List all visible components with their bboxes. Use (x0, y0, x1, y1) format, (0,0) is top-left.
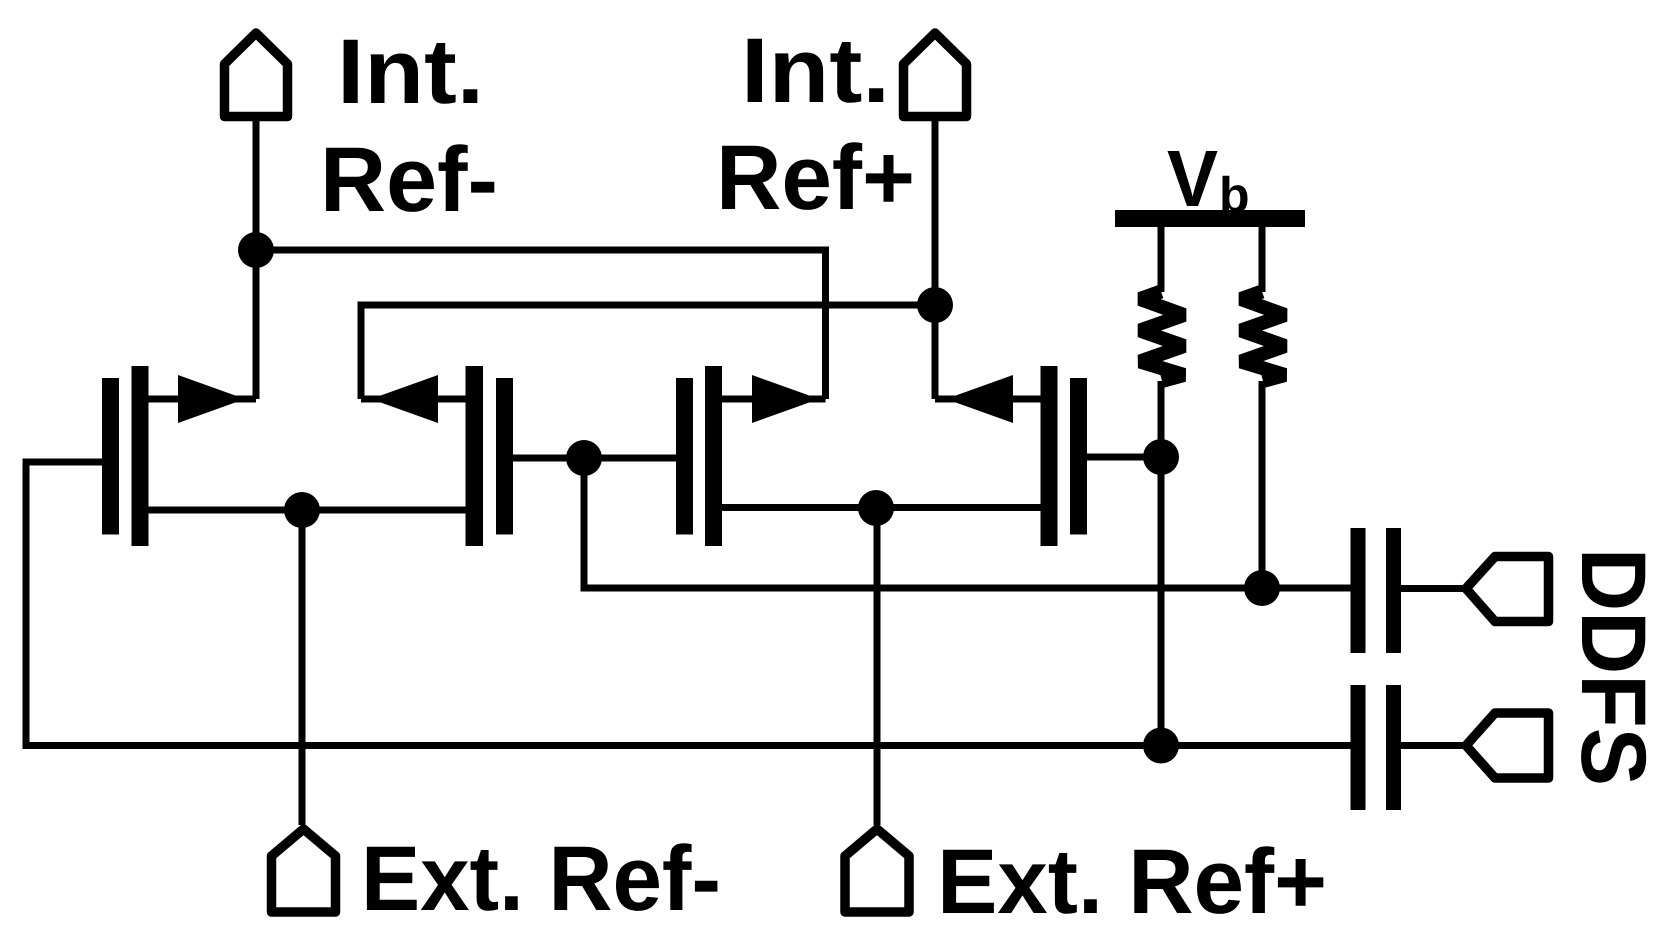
node gate23 (566, 440, 602, 476)
transistor M3 channel bar (705, 366, 722, 546)
wire tail1 to Ext.Ref- (299, 510, 306, 825)
node Int.Ref+ (917, 287, 953, 323)
label Ref- (326, 144, 494, 212)
wire M4 gate to node (1087, 454, 1161, 461)
node gate4 (1143, 439, 1179, 475)
port Ext. Ref+ (845, 829, 909, 912)
transistor M4 source arm with arrow (935, 396, 1041, 403)
label Ext. Ref- (367, 843, 718, 911)
wire Int.Ref- node to corner (256, 247, 829, 254)
node tail2 (858, 490, 894, 526)
wire C2 to port (1401, 742, 1464, 749)
capacitor C2 plates (1351, 685, 1366, 810)
port DDFS top (1466, 557, 1549, 622)
transistor M3 source arm with arrow (722, 396, 826, 403)
wire corner down to M2 source (358, 302, 365, 400)
wire corner down to M3 source (822, 247, 829, 400)
wire M2-M3 gates (513, 455, 676, 462)
wire gate4 down to bottom rail (1158, 457, 1165, 746)
node Int.Ref- (238, 232, 274, 268)
transistor M1 source arm with arrow (148, 396, 256, 403)
capacitor C1 plates (1351, 528, 1366, 653)
label Ref+ (722, 142, 911, 210)
port Int. Ref+ (904, 33, 967, 117)
transistor M4 channel bar (1041, 366, 1058, 546)
wire M3-M4 drains (722, 504, 1041, 511)
port DDFS bottom (1466, 713, 1549, 778)
transistor M4 gate bar (1070, 378, 1087, 535)
wire gate23 down (581, 458, 588, 592)
transistor M1 gate bar (102, 378, 119, 535)
label Int. (344, 40, 478, 104)
node bottom rail (1143, 728, 1179, 764)
port Int. Ref- (225, 33, 288, 117)
transistor M2 channel bar (466, 366, 484, 546)
port Ext. Ref- (272, 829, 336, 912)
wire left vertical (23, 459, 30, 750)
transistor M2 source arm with arrow (361, 396, 466, 403)
wire bottom rail to C2 (23, 742, 1351, 749)
wire tail2 to Ext.Ref+ (874, 508, 881, 825)
transistor M2 gate bar (496, 378, 513, 535)
wire M1-M2 drains (148, 507, 466, 514)
label Ext. Ref+ (943, 846, 1323, 914)
wire Int.Ref+ vertical (932, 120, 939, 399)
wire M1 gate stub (23, 459, 103, 466)
wire to cap C1 (581, 585, 1351, 592)
wire Int.Ref+ node to corner (358, 302, 936, 309)
node R2 to C1 wire (1244, 570, 1280, 606)
transistor M1 channel bar (132, 366, 149, 546)
supply rail Vb (1115, 210, 1305, 227)
transistor M3 gate bar (676, 378, 693, 535)
label Int. (748, 39, 884, 103)
wire Int.Ref- vertical to M1 source (253, 120, 260, 399)
label Vb (1168, 151, 1218, 206)
node tail1 (284, 492, 320, 528)
resistor R1 (1158, 227, 1165, 292)
label DDFS (1581, 554, 1646, 783)
resistor R2 (1259, 227, 1266, 292)
wire C1 to port (1401, 585, 1464, 592)
